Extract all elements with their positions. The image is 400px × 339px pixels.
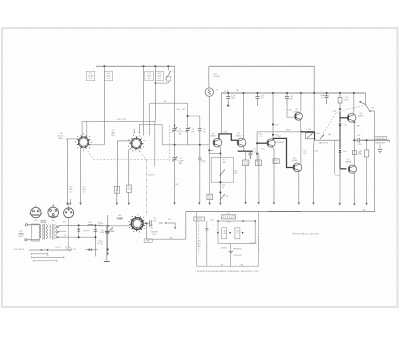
node bus-A x155 (154, 65, 156, 67)
svg-text:1 F: 1 F (236, 233, 238, 235)
lamp Y1 feed wire (208, 66, 210, 88)
svg-text:R-z: R-z (128, 187, 131, 189)
wire rail y131.5 (257, 131, 301, 133)
svg-text:P.M. SPK 4Ω: P.M. SPK 4Ω (14, 249, 25, 251)
svg-text:1%: 1% (148, 78, 151, 80)
transistor Q6 (300, 92, 302, 94)
wire bottom bus y211.6 (186, 211, 375, 213)
svg-text:NOTE 3: NOTE 3 (221, 247, 227, 249)
note4 outer box (197, 212, 259, 267)
wire sec top y225.4 (58, 224, 68, 226)
wire bus-B horizontal y66 (209, 65, 314, 67)
wire sec bot y237.2 (58, 236, 68, 238)
svg-text:911: 911 (164, 101, 167, 103)
wire cap x287 to Q6 base (286, 105, 288, 117)
svg-text:104: 104 (198, 246, 201, 248)
transistor view X1 (35, 205, 37, 208)
trimmer capacitor C2 antenna (174, 145, 176, 158)
node x257 y143 (256, 142, 258, 144)
svg-text:C9: C9 (321, 98, 323, 100)
svg-text:2-67: 2-67 (278, 136, 281, 138)
svg-text:1%: 1% (89, 78, 92, 80)
note4 label boxed (194, 217, 205, 221)
wire V1 top pins (81, 121, 83, 137)
wire Q6 emitter down to rail (299, 120, 302, 132)
wire diode row right (85, 249, 97, 251)
svg-text:5076 A: 5076 A (213, 75, 220, 78)
svg-text:R33: R33 (275, 160, 278, 162)
node Q1 col y182 (219, 181, 221, 183)
label 1-2 above transformer (41, 220, 46, 222)
wire corner down small arrow (174, 223, 176, 227)
svg-text:1-48: 1-48 (88, 222, 91, 224)
wire corner x162 down (161, 125, 163, 145)
svg-text:R49: R49 (357, 125, 360, 127)
svg-text:S2: S2 (372, 108, 374, 110)
resistor column x80 (80, 185, 82, 203)
transistor Q7 (348, 165, 356, 173)
capacitor electrolytic on x107 (106, 231, 110, 233)
svg-text:1-96: 1-96 (97, 243, 100, 245)
diode D2 (339, 150, 342, 152)
transformer taps (57, 226, 59, 228)
wire pot left (108, 225, 131, 227)
dashed gang line from V1 (88, 151, 147, 160)
node x257 y153.6 (256, 153, 258, 155)
wire line y124.6 (139, 125, 162, 133)
svg-text:60R02: 60R02 (210, 136, 216, 138)
capacitor C4 (249, 151, 251, 153)
transistor Q1 (213, 138, 222, 147)
wire pot wiper right (144, 223, 147, 225)
svg-text:473: 473 (153, 218, 156, 220)
wire col x313 middle (312, 140, 315, 149)
battery cell B1 (217, 220, 219, 222)
transistor view X2 (52, 204, 54, 207)
svg-text:R39: R39 (231, 98, 234, 100)
dimension line 3 (33, 260, 57, 262)
resistor R23 boxed col (257, 153, 259, 155)
svg-text:60R08: 60R08 (346, 161, 352, 163)
svg-text:407: 407 (221, 264, 224, 266)
switch S1 hatched box (222, 215, 236, 219)
wire drop x243 to Q2 collector (243, 92, 245, 94)
svg-text:472: 472 (225, 196, 228, 198)
wire Q8 col faint to arrow (339, 169, 341, 203)
svg-text:2-10: 2-10 (65, 247, 68, 249)
variable resistor 2-17C box (306, 133, 315, 139)
capacitor filter x95 (94, 225, 96, 256)
diode D3 vertical (78, 225, 80, 228)
wire bus-A horizontal y66 (96, 65, 175, 67)
svg-text:1: 1 (203, 163, 204, 165)
node x187 y116 (187, 115, 189, 117)
node y144.8 x199 (199, 144, 201, 146)
wire osc-coil line y121 (82, 120, 155, 122)
wire x149.6 down (149, 103, 151, 135)
speaker terminal lower (25, 239, 27, 241)
dashed link volume to S2 (322, 105, 366, 137)
output transformer T2 core (42, 224, 44, 240)
svg-text:24-7: 24-7 (197, 243, 200, 245)
svg-text:24-7: 24-7 (208, 195, 211, 197)
svg-text:C7: C7 (261, 98, 263, 100)
diode D1 (339, 123, 342, 125)
capacitor C50 series (354, 139, 357, 141)
transformer shield outline (32, 224, 40, 241)
output transformer T2 secondary (46, 225, 47, 229)
wire Q3 collector thick (273, 138, 294, 167)
svg-text:T-456: T-456 (244, 161, 248, 163)
tube socket V2 oscillator (131, 138, 141, 148)
svg-text:187y - 15A: 187y - 15A (176, 108, 185, 111)
svg-text:56.85: 56.85 (344, 99, 349, 101)
dimension line 1 (32, 253, 48, 255)
wire V1 left pin (66, 138, 79, 140)
resistor column x116 boxed (116, 185, 119, 193)
svg-text:25-7: 25-7 (73, 249, 76, 251)
wire Q7 emitter down to arrow (353, 173, 355, 203)
svg-text:R25: R25 (153, 220, 156, 222)
wire pot branch down (146, 224, 148, 237)
wire y153.5 left (208, 153, 220, 155)
wire rect row y225.4 (68, 224, 107, 226)
wire S2 to right vertical (371, 110, 375, 112)
trimmer capacitor C3 (187, 127, 189, 129)
switch S2 bus end drop (365, 93, 367, 105)
svg-text:42: 42 (222, 187, 224, 189)
resistor boxed 24-7 col209 (207, 194, 213, 199)
node x354 y122 (353, 121, 355, 123)
wire corner x314 thick (314, 132, 316, 140)
svg-text:PPG/PHOTOFACT-xx · SET 291-R: PPG/PHOTOFACT-xx · SET 291-R (292, 232, 319, 235)
wire Q3 emitter col (272, 147, 274, 202)
svg-text:2N-x: 2N-x (34, 220, 38, 222)
node x273 y124 C14 (272, 123, 274, 125)
svg-text:60R08: 60R08 (358, 115, 364, 117)
svg-text:BATTERY 1: BATTERY 1 (233, 247, 242, 250)
label DCR boxed (375, 137, 387, 140)
wire Q3 base thick (257, 142, 268, 144)
battery box nodes (242, 220, 244, 222)
wire bus-C left corner down to Q1 (220, 93, 222, 133)
svg-text:1200: 1200 (357, 144, 361, 146)
wire long drop x314 bus-B to arrow (313, 66, 315, 92)
wire bus-A corner down x174 (174, 66, 176, 128)
lamp Y1 (205, 88, 213, 96)
wire x174 col upper (174, 127, 176, 129)
wire cap x107 junction (107, 248, 109, 250)
wire osc-coil corner down x155 (154, 121, 156, 166)
transistor Q5 (293, 163, 302, 172)
svg-text:60R08: 60R08 (292, 160, 298, 162)
resistor R2 1-71 (143, 66, 145, 135)
capacitor C30 x228 (227, 92, 229, 94)
battery cells small (229, 250, 233, 252)
svg-text:4-5: 4-5 (64, 235, 66, 237)
volume control R44 arrow (320, 135, 324, 140)
svg-text:FREQ: FREQ (58, 138, 64, 140)
node bus-A x104 (103, 65, 105, 67)
tube socket V1 converter (78, 137, 88, 147)
wire output line (359, 139, 389, 141)
transistor view X3 (68, 205, 70, 208)
resistor column x129 boxed (127, 185, 132, 192)
svg-text:103: 103 (234, 173, 237, 175)
resistor T-456 boxed col (245, 151, 247, 160)
wire lamp col node (208, 149, 210, 151)
svg-text:60R08: 60R08 (294, 112, 300, 114)
svg-text:S1: S1 (227, 213, 229, 215)
wire col x107 down (107, 215, 109, 253)
svg-text:2N-z: 2N-z (63, 221, 67, 223)
driver transformer T1 windings (50, 225, 51, 228)
svg-text:1-8: 1-8 (116, 188, 118, 190)
wire 2-41 stub (333, 140, 335, 174)
svg-text:C14: C14 (275, 124, 278, 126)
svg-text:R-y: R-y (101, 241, 104, 243)
capacitor C34 x287 (286, 92, 288, 94)
svg-text:C85: C85 (343, 124, 346, 126)
svg-text:56.85: 56.85 (358, 154, 362, 156)
svg-text:4-75: 4-75 (333, 111, 336, 113)
trimmer capacitor C1 (174, 125, 176, 128)
wire bus left corner down (185, 212, 187, 240)
wire V2 bottom dashdot to volume (138, 148, 146, 159)
wire Q7 base thick corner (340, 168, 346, 170)
svg-text:Q3 60R02: Q3 60R02 (276, 142, 284, 144)
svg-text:NOTE 4: NOTE 4 (196, 219, 202, 221)
svg-text:EARPHONE: EARPHONE (375, 141, 385, 144)
svg-text:98.5: 98.5 (115, 190, 118, 192)
wire V2 lower-left pin col x128.5 (129, 147, 133, 185)
svg-text:C·NOTE 4: C·NOTE 4 (147, 175, 155, 177)
wire Q7 collector up (353, 140, 355, 165)
svg-text:MWO: MWO (286, 130, 291, 132)
wire bus-C horizontal y93 (221, 92, 365, 94)
resistor 1-62 label right of x104 (104, 71, 112, 81)
wire rect row2 y237.2 (68, 236, 96, 238)
node x340 y109 (339, 108, 341, 110)
wire battery center down (229, 243, 231, 266)
svg-text:2 17C: 2 17C (306, 129, 311, 131)
svg-text:C41: C41 (198, 241, 201, 243)
bias network box (211, 157, 233, 182)
arrow C2 col (173, 202, 175, 205)
svg-text:60R02: 60R02 (236, 136, 242, 138)
dashed gang vertical x169.6 (169, 125, 171, 162)
node x273 y135 C16 (272, 134, 274, 136)
resistor R53 boxed on x366 (366, 140, 368, 150)
wire line y140 volume row (315, 139, 341, 141)
svg-text:104: 104 (208, 198, 211, 200)
svg-text:1-2: 1-2 (42, 221, 44, 223)
svg-text:R41: R41 (290, 98, 293, 100)
node y144.8 x174 (174, 144, 176, 146)
wire Q1 emitter col (219, 147, 222, 203)
svg-text:OUTPUT: OUTPUT (250, 243, 257, 245)
svg-text:1 R2: 1 R2 (223, 231, 226, 233)
resistor R47 boxed x340 (339, 92, 341, 94)
capacitor C5 (199, 127, 201, 129)
svg-text:1/2: 1/2 (359, 102, 362, 104)
wire Q5 collector up (300, 132, 302, 163)
wire V2 left pin to x117 (118, 141, 132, 185)
node bus-A x143 (143, 65, 145, 67)
svg-text:R23: R23 (257, 161, 260, 163)
svg-text:R46: R46 (170, 237, 173, 239)
svg-text:C-3 1-9: C-3 1-9 (55, 247, 60, 249)
battery box (218, 221, 255, 243)
dimension line 2 (32, 256, 64, 258)
transistor Q2 (237, 138, 246, 147)
node Q1 col y192 (219, 191, 221, 193)
variable resistor R4 with box (167, 65, 169, 67)
capacitor C32 x257 (257, 92, 259, 94)
wire Q8 emitter down (353, 121, 355, 140)
ground symbol right (379, 144, 381, 150)
switch S2 blade (360, 102, 366, 105)
svg-text:R-x: R-x (101, 223, 104, 225)
svg-text:(2-4.1): (2-4.1) (335, 175, 340, 177)
svg-text:100: 100 (223, 162, 226, 164)
wire V1 right pin to x104 (89, 144, 105, 146)
resistor column 1-58 x68 (66, 185, 68, 203)
svg-text:TB: TB (46, 256, 48, 258)
svg-text:OSC COIL: OSC COIL (117, 119, 126, 121)
wire y83 between x155 x168 (155, 82, 168, 84)
wire drop x354 to Q8 collector (353, 92, 355, 94)
dashed vertical left inside (198, 222, 200, 256)
svg-text:C31: C31 (303, 153, 306, 155)
resistor R1 label (86, 71, 95, 81)
wire V2 top stub (133, 129, 135, 134)
speaker terminal upper (25, 224, 27, 226)
capacitor coupling after pot (147, 223, 149, 225)
svg-text:103: 103 (150, 228, 153, 230)
svg-text:C50: C50 (357, 135, 360, 137)
svg-text:2N-y: 2N-y (52, 220, 56, 222)
node Q1 col y153.5 (219, 153, 221, 155)
svg-text:R35: R35 (98, 223, 101, 225)
svg-text:ELF: ELF (175, 184, 178, 186)
wire bottom bus dark segment (268, 211, 301, 213)
resistor R33 boxed (273, 159, 279, 164)
svg-text:470: 470 (275, 162, 278, 164)
wire drop x273 to Q3 (272, 92, 274, 94)
svg-text:2K14: 2K14 (223, 132, 227, 134)
wire lamp down x209 (208, 96, 210, 150)
svg-text:DCR 4Ω7: DCR 4Ω7 (377, 138, 385, 140)
wire Q1 collector thick (219, 134, 237, 140)
svg-text:10MF: 10MF (100, 232, 104, 234)
svg-text:C.04: C.04 (236, 231, 239, 233)
dashes and arrow to AF (159, 222, 163, 224)
svg-text:.01: .01 (253, 152, 255, 154)
svg-text:50MF: 50MF (110, 231, 114, 233)
wire Q8 base thick (340, 117, 349, 119)
capacitor C36 x327 (326, 92, 328, 94)
node output x366 (366, 139, 368, 141)
volume pot VR1 (131, 218, 143, 230)
svg-text:D14: D14 (343, 151, 346, 153)
svg-text:R25: R25 (150, 225, 153, 227)
capacitor C7 455 (199, 145, 201, 158)
transistor Q8 (347, 114, 356, 123)
marks above V2 (133, 132, 135, 133)
resistor R3 5076 (154, 66, 156, 121)
wire Q5 emitter down (297, 171, 299, 202)
svg-text:1 W RESISTOR UNLESS STATED: 1 W RESISTOR UNLESS STATED OTHERWISE · S… (195, 270, 259, 273)
svg-text:NAB-17x.M: NAB-17x.M (319, 141, 329, 144)
svg-text:1%: 1% (107, 78, 110, 80)
capacitor C40 column (206, 221, 208, 228)
wire y103 link (150, 103, 188, 126)
output transformer T2 primary (40, 225, 41, 228)
wire bottom row y250 (29, 249, 71, 251)
svg-text:1-73: 1-73 (97, 240, 100, 242)
wire y144.8 row (162, 144, 209, 146)
wire V1 bottom col x80 (80, 147, 82, 185)
transistor Q3 (267, 139, 275, 147)
wire Q2 collector up (243, 137, 245, 139)
svg-text:470: 470 (168, 219, 171, 221)
dashed vertical right inside (258, 236, 260, 252)
svg-text:1%: 1% (158, 78, 161, 80)
wire drop x104 bus-A to V1 pin wire (103, 66, 105, 145)
svg-text:TEST: TEST (152, 234, 156, 236)
svg-text:NOTE 5: NOTE 5 (83, 230, 89, 232)
svg-text:INPUT: INPUT (18, 236, 23, 238)
label 25-7 circled (68, 248, 71, 251)
svg-text:1 MEG: 1 MEG (117, 219, 123, 221)
svg-text:24: 24 (259, 136, 261, 138)
svg-text:PPG-0610: PPG-0610 (234, 255, 242, 257)
label REC boxed (144, 239, 152, 242)
wire sec mid y231 (58, 230, 66, 232)
wire V1 left down col x68 (66, 139, 68, 185)
capacitor filter x107 plus (106, 225, 108, 261)
wire rail corner x257 down (256, 132, 258, 162)
wire Q2 emitter thick (242, 146, 245, 151)
wire volume to bus corner (147, 237, 186, 240)
